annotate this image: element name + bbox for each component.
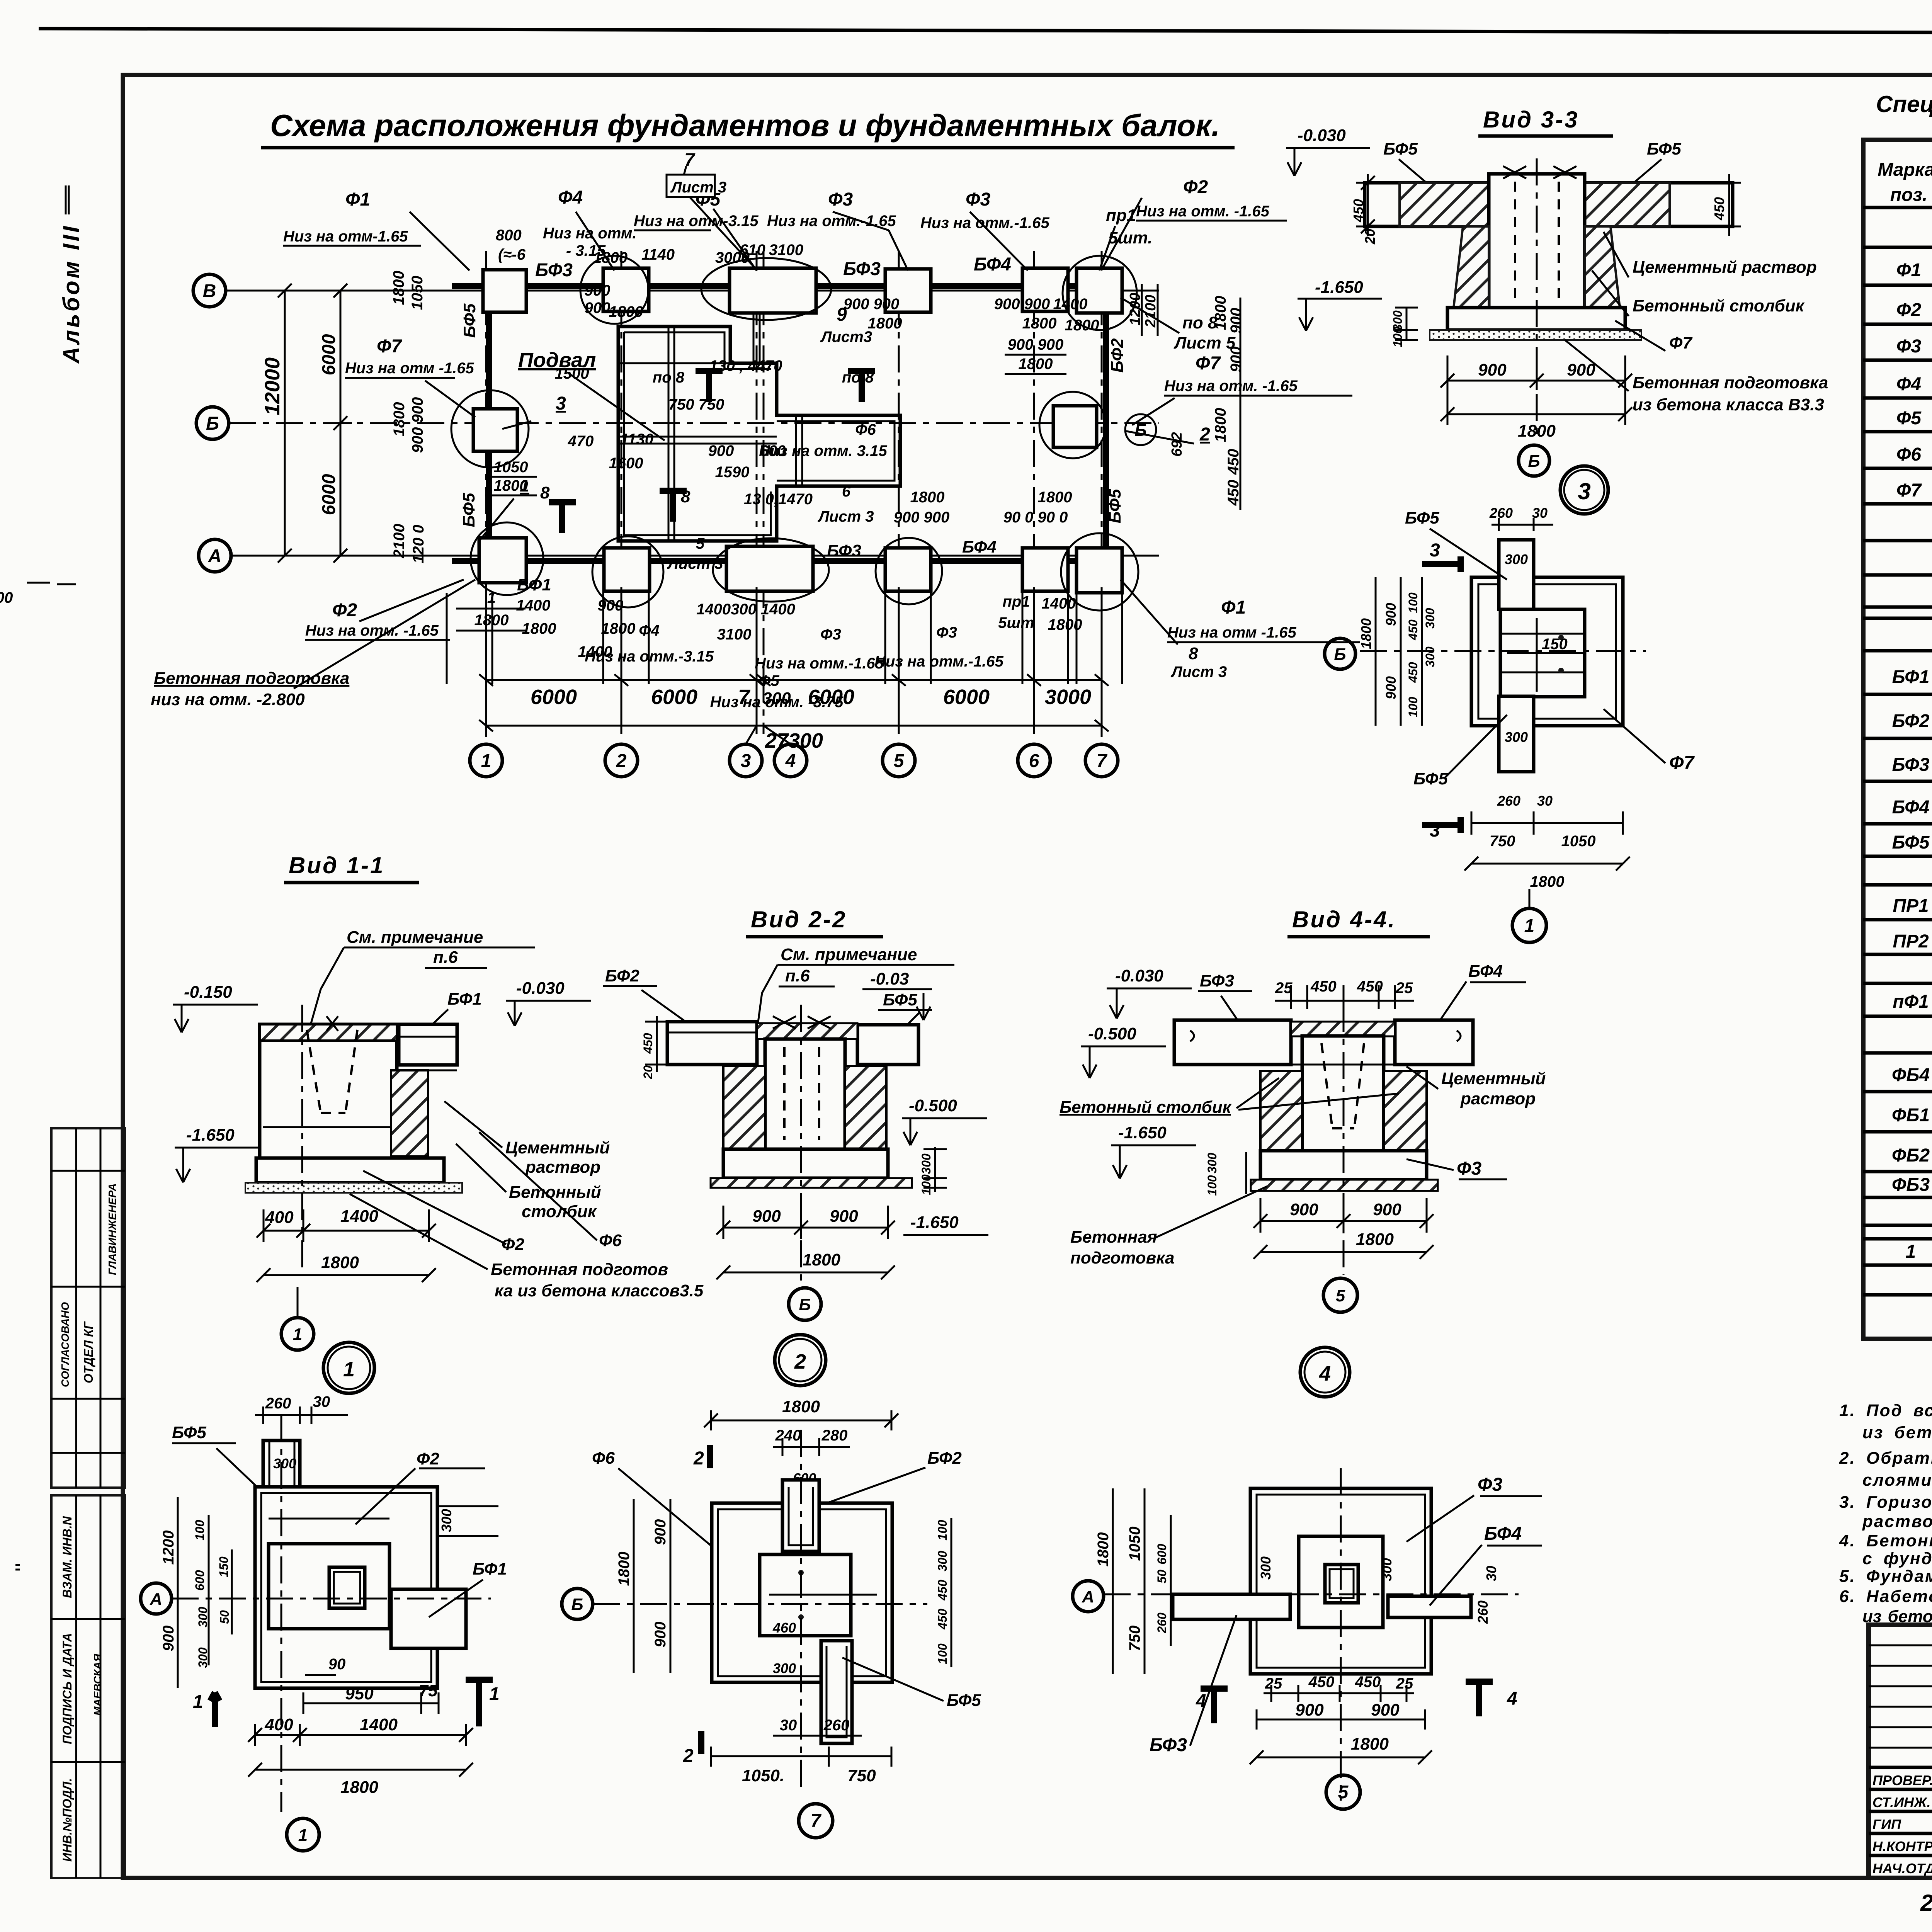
detail F7 top beam stub <box>1499 540 1534 609</box>
svg-text:-1.650: -1.650 <box>1118 1123 1167 1142</box>
detail 5 axis circle A <box>1073 1581 1104 1612</box>
svg-text:БФ5: БФ5 <box>947 1691 981 1710</box>
view 1-1 mortar wedge hatched <box>391 1070 428 1156</box>
detail 7 axis circle B <box>562 1588 593 1619</box>
svg-text:ФБ3: ФБ3 <box>1892 1175 1930 1195</box>
view 3-3 stakan column <box>1489 174 1585 308</box>
svg-text:БФ5: БФ5 <box>1647 139 1681 158</box>
svg-text:БФ1: БФ1 <box>517 575 551 594</box>
svg-text:БФ2: БФ2 <box>605 966 639 985</box>
svg-text:260: 260 <box>1475 1600 1491 1624</box>
svg-text:пр1: пр1 <box>1002 593 1030 610</box>
svg-text:1800: 1800 <box>1356 1230 1394 1249</box>
title block outer <box>1869 1625 1932 1878</box>
svg-text:1. Под всеми монолотными фунда: 1. Под всеми монолотными фундаментами пр… <box>1839 1401 1932 1420</box>
svg-text:9: 9 <box>837 304 847 325</box>
svg-text:Б: Б <box>1334 645 1346 664</box>
detail 1 footing outline <box>255 1487 437 1688</box>
svg-text:900 900: 900 900 <box>1008 336 1064 353</box>
svg-text:25: 25 <box>1395 980 1413 997</box>
axis row B <box>196 407 229 439</box>
svg-text:900: 900 <box>1228 347 1245 372</box>
svg-text:Ф1: Ф1 <box>1221 597 1246 618</box>
svg-text:подготовка: подготовка <box>1070 1248 1175 1267</box>
svg-text:Альбом III: Альбом III <box>58 224 84 364</box>
revision clouds <box>701 258 831 320</box>
svg-text:ФБ1: ФБ1 <box>1892 1105 1930 1126</box>
view 3-3 slab band <box>1365 183 1733 226</box>
svg-text:7: 7 <box>1097 751 1108 771</box>
detail 1 inner step <box>269 1544 389 1629</box>
basement inner partitions <box>618 327 777 541</box>
svg-text:300: 300 <box>196 1607 210 1628</box>
svg-text:БФ3: БФ3 <box>827 541 861 560</box>
svg-text:Вид 2-2: Вид 2-2 <box>751 906 847 932</box>
svg-text:Низ на отм-3.15: Низ на отм-3.15 <box>634 213 759 230</box>
svg-text:25: 25 <box>1275 980 1293 997</box>
svg-text:2: 2 <box>794 1350 806 1373</box>
svg-text:пФ1: пФ1 <box>1893 992 1929 1012</box>
svg-text:Ф6: Ф6 <box>599 1231 622 1250</box>
svg-text:25: 25 <box>1265 1675 1282 1692</box>
view 3-3 dims 300 100 <box>1395 308 1418 340</box>
svg-text:1: 1 <box>1906 1242 1916 1262</box>
svg-text:75: 75 <box>419 1681 438 1700</box>
svg-text:Н.КОНТР: Н.КОНТР <box>1872 1838 1932 1854</box>
svg-text:БФ5: БФ5 <box>1405 509 1439 527</box>
svg-text:5: 5 <box>894 751 905 771</box>
svg-text:1500: 1500 <box>555 365 589 382</box>
detail 5 bottom dims 25 450 450 25 <box>1264 1685 1414 1702</box>
svg-text:БФ4: БФ4 <box>1468 962 1503 981</box>
svg-text:п.6: п.6 <box>785 966 810 985</box>
svg-text:1800: 1800 <box>340 1778 378 1797</box>
view 3-3 prep strip <box>1430 330 1641 340</box>
view 2-2 prep strip <box>711 1178 912 1188</box>
svg-text:1: 1 <box>298 1826 308 1845</box>
svg-text:МАЕВСКАЯ: МАЕВСКАЯ <box>92 1654 104 1716</box>
svg-text:БФ2: БФ2 <box>1108 338 1127 372</box>
detail 5 circle 5 <box>1326 1775 1360 1809</box>
svg-text:260: 260 <box>823 1717 850 1734</box>
svg-text:2: 2 <box>616 751 627 771</box>
svg-text:Ф2: Ф2 <box>417 1449 439 1468</box>
svg-text:Ф7: Ф7 <box>1669 753 1695 773</box>
view 2-2 column <box>765 1039 845 1149</box>
svg-text:100: 100 <box>193 1520 207 1541</box>
column circles 1-7 <box>470 744 502 777</box>
svg-text:1050: 1050 <box>1561 833 1596 850</box>
svg-text:300: 300 <box>1505 551 1528 567</box>
svg-text:3. Горизонтальную гидроизоляци: 3. Горизонтальную гидроизоляцию стен вып… <box>1839 1493 1932 1512</box>
svg-text:900: 900 <box>830 1207 858 1226</box>
view 3-3 concrete posts hatched <box>1454 226 1489 308</box>
rows F1..F7 <box>1896 259 1932 501</box>
svg-text:30: 30 <box>1537 793 1553 809</box>
view 2-2 axis <box>800 1005 802 1283</box>
svg-text:Ф2: Ф2 <box>1183 177 1208 197</box>
svg-text:4. Бетонные столбики под фунда: 4. Бетонные столбики под фундаментные ба… <box>1839 1531 1932 1550</box>
detail 5 left dims <box>1113 1488 1171 1674</box>
svg-text:-0.500: -0.500 <box>909 1096 957 1115</box>
svg-text:750: 750 <box>1490 833 1515 850</box>
left margin stamp boxes group 1 <box>51 1128 125 1488</box>
svg-text:27300: 27300 <box>765 729 823 752</box>
svg-text:800: 800 <box>496 227 522 244</box>
svg-text:БФ1: БФ1 <box>1892 667 1930 687</box>
svg-text:900: 900 <box>708 442 734 459</box>
foundation beam BF5 right vertical <box>1103 298 1109 553</box>
svg-text:5. Фундаментные балки укладыва: 5. Фундаментные балки укладываются на св… <box>1839 1567 1932 1586</box>
svg-text:Лист 3: Лист 3 <box>667 555 723 572</box>
svg-text:100: 100 <box>1406 592 1420 613</box>
detail 1 dims 400 1400 <box>248 1724 473 1746</box>
svg-text:БФ3: БФ3 <box>1892 755 1930 775</box>
svg-text:3: 3 <box>1430 540 1440 561</box>
svg-text:Б: Б <box>1134 421 1146 440</box>
svg-text:с фундаментами.: с фундаментами. <box>1862 1549 1932 1568</box>
svg-text:300: 300 <box>1423 608 1437 629</box>
svg-text:900: 900 <box>1228 308 1245 334</box>
svg-text:Ф7: Ф7 <box>1196 353 1221 374</box>
svg-text:Ф2: Ф2 <box>332 600 357 621</box>
svg-text:450: 450 <box>641 1033 655 1054</box>
view 3-3 left dims 450 20 <box>1356 174 1379 236</box>
svg-text:ПР2: ПР2 <box>1893 931 1929 952</box>
svg-text:2100: 2100 <box>1143 295 1159 328</box>
column axes verticals <box>485 251 487 734</box>
svg-text:1: 1 <box>343 1358 355 1381</box>
svg-text:900: 900 <box>1290 1200 1318 1219</box>
row PF1 <box>1893 990 1932 1012</box>
svg-text:260: 260 <box>1497 793 1520 809</box>
detail 7 right dims <box>951 1518 952 1667</box>
svg-text:низ на отм. -2.800: низ на отм. -2.800 <box>151 690 305 709</box>
svg-text:Вид 1-1: Вид 1-1 <box>289 852 384 878</box>
svg-text:5: 5 <box>1336 1286 1345 1305</box>
svg-text:900 900: 900 900 <box>994 296 1050 313</box>
svg-text:260: 260 <box>1155 1612 1169 1634</box>
svg-text:Ф1: Ф1 <box>1896 260 1921 281</box>
svg-text:-0.030: -0.030 <box>516 979 565 998</box>
svg-text:Б: Б <box>799 1295 811 1314</box>
view 3-3 axis vertical <box>1536 158 1538 437</box>
detail 1 central pocket <box>329 1567 365 1608</box>
left margin stamp boxes group 2 <box>51 1495 125 1878</box>
svg-text:1800: 1800 <box>1530 873 1565 890</box>
rows FB <box>1892 1065 1932 1195</box>
svg-text:1800: 1800 <box>390 271 407 305</box>
signature rows names <box>1872 1772 1932 1876</box>
small scan dashes left margin <box>27 583 76 584</box>
svg-text:6: 6 <box>1029 751 1039 771</box>
svg-text:8: 8 <box>681 487 690 506</box>
svg-text:СТ.ИНЖ.: СТ.ИНЖ. <box>1872 1794 1931 1810</box>
svg-text:4: 4 <box>1196 1691 1206 1711</box>
svg-text:450: 450 <box>1355 1673 1381 1690</box>
svg-text:Схема расположения фундаментов: Схема расположения фундаментов и фундаме… <box>270 108 1220 143</box>
svg-text:750 750: 750 750 <box>668 396 724 413</box>
svg-text:СОГЛАСОВАНО: СОГЛАСОВАНО <box>59 1302 71 1387</box>
svg-text:8: 8 <box>540 483 550 502</box>
svg-text:1800: 1800 <box>1358 618 1374 649</box>
svg-text:БФ4: БФ4 <box>962 537 997 556</box>
svg-text:Ф6: Ф6 <box>1896 444 1921 465</box>
svg-text:ПР1: ПР1 <box>1893 896 1929 916</box>
basement walls outline <box>618 327 900 541</box>
svg-text:1200: 1200 <box>160 1531 177 1565</box>
svg-text:12000: 12000 <box>261 357 284 415</box>
svg-text:6000: 6000 <box>319 334 339 375</box>
svg-text:900: 900 <box>1373 1200 1401 1219</box>
svg-text:1: 1 <box>293 1325 302 1344</box>
detail F7 circle 1 <box>1512 908 1546 942</box>
view 2-2 hatched strip between beams <box>757 1023 857 1039</box>
view 2-2 beams <box>667 1022 757 1065</box>
view 4-4 beams <box>1174 1020 1291 1065</box>
svg-text:п.6: п.6 <box>433 948 458 967</box>
svg-text:Бетонная: Бетонная <box>1070 1228 1157 1247</box>
svg-text:300: 300 <box>1423 646 1437 667</box>
svg-text:460: 460 <box>772 1620 796 1636</box>
svg-text:450: 450 <box>1406 662 1420 683</box>
svg-text:1590: 1590 <box>715 464 750 481</box>
svg-text:300: 300 <box>1505 729 1528 745</box>
svg-text:1400: 1400 <box>516 597 551 614</box>
svg-text:Ф3: Ф3 <box>1896 336 1921 357</box>
svg-text:100: 100 <box>919 1174 933 1195</box>
view 1-1 foundation body <box>260 1024 397 1158</box>
view 4-4 axis <box>1343 1005 1345 1275</box>
svg-text:22640-02: 22640-02 <box>1920 1890 1932 1916</box>
svg-text:1800: 1800 <box>1212 296 1229 330</box>
row MN553 <box>1906 1240 1932 1262</box>
svg-text:450: 450 <box>1406 619 1420 641</box>
detail 5 dims 900 900 <box>1257 1709 1425 1730</box>
svg-text:900 900: 900 900 <box>409 397 426 453</box>
view 3-3 bottom dims 900 900 1800 <box>1447 355 1625 425</box>
svg-text:ПОДПИСЬ И ДАТА: ПОДПИСЬ И ДАТА <box>60 1633 74 1744</box>
svg-text:150: 150 <box>217 1556 231 1577</box>
svg-text:1: 1 <box>489 1684 500 1704</box>
svg-text:ВЗАМ. ИНВ.N: ВЗАМ. ИНВ.N <box>60 1516 74 1598</box>
detail 5 footing outline <box>1250 1488 1431 1674</box>
svg-text:1800: 1800 <box>522 620 556 637</box>
svg-text:900: 900 <box>160 1626 177 1651</box>
detail F7 inner pocket <box>1500 609 1585 697</box>
svg-text:БФ3: БФ3 <box>1150 1735 1187 1755</box>
svg-text:ка из бетона классов3.5: ка из бетона классов3.5 <box>495 1281 704 1300</box>
svg-text:2: 2 <box>693 1448 704 1469</box>
svg-text:6000: 6000 <box>531 685 577 709</box>
svg-text:-0.150: -0.150 <box>184 983 232 1002</box>
svg-text:3: 3 <box>741 751 751 771</box>
svg-text:Низ на отм -1.65: Низ на отм -1.65 <box>1167 624 1296 641</box>
svg-text:А: А <box>208 546 222 566</box>
footings row A <box>479 538 526 583</box>
svg-text:1800: 1800 <box>494 477 528 494</box>
svg-text:Ф4: Ф4 <box>558 187 583 208</box>
svg-text:90 0 90 0: 90 0 90 0 <box>1003 509 1068 526</box>
svg-text:1800: 1800 <box>601 620 636 637</box>
stakan columns verticals under F5 <box>753 314 802 485</box>
svg-text:БФ2: БФ2 <box>1892 711 1930 731</box>
svg-text:900: 900 <box>1567 361 1595 379</box>
svg-text:Ф3: Ф3 <box>1478 1475 1502 1495</box>
view 1-1 bottom dims <box>257 1209 436 1242</box>
foundation beams row V <box>452 283 1121 289</box>
detail F7 center marks <box>1507 618 1584 692</box>
svg-text:300: 300 <box>273 1456 296 1471</box>
svg-text:4: 4 <box>1507 1689 1517 1709</box>
svg-text:ОТДЕЛ КГ: ОТДЕЛ КГ <box>82 1321 95 1383</box>
view 4-4 prep strip <box>1251 1180 1438 1191</box>
svg-text:Вид 4-4.: Вид 4-4. <box>1292 906 1396 932</box>
svg-text:ИНВ.№ПОДЛ.: ИНВ.№ПОДЛ. <box>60 1778 74 1862</box>
view 3-3 detail circle 3 <box>1560 466 1608 514</box>
extension lines from footings <box>446 593 448 684</box>
svg-text:450: 450 <box>1225 480 1242 506</box>
svg-text:Низ на отм. -1.65: Низ на отм. -1.65 <box>1136 203 1270 220</box>
detail 5 dim 1800 <box>1250 1750 1432 1764</box>
svg-text:13 0,1470: 13 0,1470 <box>744 491 813 508</box>
svg-text:1050: 1050 <box>1126 1527 1143 1561</box>
svg-text:900: 900 <box>652 1519 669 1545</box>
left dim chain 12000 <box>273 284 296 563</box>
svg-text:4: 4 <box>1319 1362 1331 1385</box>
svg-text:280: 280 <box>821 1427 848 1444</box>
svg-text:6: 6 <box>842 483 851 500</box>
svg-text:Ф7: Ф7 <box>1669 333 1693 352</box>
svg-text:ФБ4: ФБ4 <box>1892 1065 1930 1085</box>
svg-text:БФ5: БФ5 <box>460 303 479 338</box>
svg-text:Низ на отм. -1.65: Низ на отм. -1.65 <box>305 622 439 639</box>
bottom dimension chain segments <box>486 679 1102 681</box>
svg-text:2: 2 <box>683 1746 694 1766</box>
svg-text:Низ на отм. -3.75: Низ на отм. -3.75 <box>710 694 844 711</box>
svg-text:Бетонная подготов: Бетонная подготов <box>491 1260 668 1279</box>
detail 5 central pocket <box>1325 1565 1358 1603</box>
svg-text:БФ5: БФ5 <box>1383 139 1418 158</box>
svg-text:2. Обратную засыпку производит: 2. Обратную засыпку производить грунтом … <box>1839 1449 1932 1468</box>
circled B right <box>1125 414 1156 445</box>
svg-text:260: 260 <box>1489 505 1513 521</box>
svg-text:Ф2: Ф2 <box>1896 300 1921 320</box>
footings row V <box>483 270 526 312</box>
svg-text:100: 100 <box>1391 327 1405 347</box>
svg-text:8: 8 <box>1189 644 1198 663</box>
svg-text:900: 900 <box>598 597 624 614</box>
svg-text:100: 100 <box>1205 1175 1219 1196</box>
svg-text:750: 750 <box>1126 1626 1143 1651</box>
svg-text:900: 900 <box>585 299 611 316</box>
svg-text:Вид 3-3: Вид 3-3 <box>1483 107 1579 133</box>
svg-text:Ф3: Ф3 <box>1457 1158 1481 1179</box>
svg-text:Бетонный: Бетонный <box>509 1183 601 1202</box>
detail F7 plan outer square <box>1471 577 1623 726</box>
svg-text:1800: 1800 <box>1065 317 1099 334</box>
svg-text:1400: 1400 <box>1042 595 1076 612</box>
svg-text:БФ3: БФ3 <box>1200 971 1234 990</box>
svg-text:-0.03: -0.03 <box>870 969 909 988</box>
detail F7 axis <box>1360 650 1646 652</box>
svg-text:1130: 1130 <box>620 431 653 448</box>
svg-text:БФ5: БФ5 <box>1892 832 1930 853</box>
svg-text:Низ на отм. -1.65: Низ на отм. -1.65 <box>1164 378 1298 395</box>
svg-text:раствор: раствор <box>1460 1089 1536 1108</box>
svg-text:400: 400 <box>264 1715 293 1734</box>
view 4-4 bottom dims <box>1253 1198 1434 1233</box>
detail 7 beam stub bottom <box>821 1641 852 1743</box>
detail 5 left beam BF3 <box>1173 1594 1290 1619</box>
svg-text:3: 3 <box>1578 478 1590 504</box>
view 2-2 right dims 300 100 <box>923 1147 947 1192</box>
svg-text:100: 100 <box>935 1520 949 1541</box>
svg-text:1800: 1800 <box>1022 315 1057 332</box>
svg-text:Ф7: Ф7 <box>1896 480 1922 501</box>
svg-text:ГИП: ГИП <box>1872 1816 1901 1832</box>
foundation beam BF5 left vertical <box>486 298 492 553</box>
svg-text:1400: 1400 <box>340 1207 378 1226</box>
detail F7 bottom dims <box>1471 811 1623 835</box>
svg-text:3100: 3100 <box>717 626 752 643</box>
svg-text:1140: 1140 <box>641 246 675 263</box>
svg-text:450: 450 <box>1711 197 1727 221</box>
view 3-3 axis circle B <box>1519 445 1549 476</box>
svg-text:1400: 1400 <box>360 1715 398 1734</box>
svg-text:из бетона класса В 3.5 толщино: из бетона класса В 3.5 толщиной 100 мм. <box>1862 1423 1932 1442</box>
svg-text:150: 150 <box>1542 636 1568 653</box>
svg-text:из бетона класса В3.3: из бетона класса В3.3 <box>1633 395 1824 414</box>
detail 5 right beam BF4 <box>1388 1596 1471 1617</box>
svg-text:Ф6: Ф6 <box>592 1449 615 1468</box>
svg-text:1800: 1800 <box>391 402 408 437</box>
detail 7 dims 1050 750 <box>711 1747 891 1767</box>
svg-text:Ф3: Ф3 <box>820 626 841 643</box>
svg-text:1400300 1400: 1400300 1400 <box>696 601 795 618</box>
specification table grid <box>1863 140 1932 1339</box>
svg-text:300: 300 <box>1379 1558 1395 1581</box>
svg-text:6000: 6000 <box>319 474 339 515</box>
svg-text:БФ4: БФ4 <box>1892 797 1930 818</box>
svg-text:950: 950 <box>345 1684 374 1703</box>
svg-text:Спецификация к схеме располож: Спецификация к схеме расположения фундам… <box>1876 91 1932 117</box>
section marks T8 <box>549 502 576 533</box>
svg-text:240: 240 <box>775 1427 801 1444</box>
svg-text:300: 300 <box>935 1551 949 1571</box>
svg-text:1400: 1400 <box>1053 296 1088 313</box>
axis row A <box>199 539 231 572</box>
svg-text:900: 900 <box>1383 676 1399 699</box>
svg-text:1800: 1800 <box>321 1253 359 1272</box>
svg-text:БФ5: БФ5 <box>1105 489 1124 523</box>
svg-text:1050.: 1050. <box>742 1766 784 1785</box>
svg-text:100: 100 <box>1406 697 1420 718</box>
svg-text:Низ на отм. 3.15: Низ на отм. 3.15 <box>759 442 887 459</box>
svg-text:5шт: 5шт <box>998 614 1034 631</box>
svg-text:750: 750 <box>847 1766 876 1785</box>
detail 1 dim 1800 <box>248 1763 473 1777</box>
svg-text:слоями не более 200мм. с уплот: слоями не более 200мм. с уплотнение до р… <box>1862 1471 1932 1490</box>
view 2-2 posts hatched <box>723 1066 765 1149</box>
view 4-4 circle 5 <box>1323 1278 1357 1312</box>
svg-text:Ф3: Ф3 <box>966 189 990 210</box>
svg-text:1800: 1800 <box>1038 489 1072 506</box>
rows BF1..BF5 <box>1892 666 1932 853</box>
svg-text:6000: 6000 <box>943 685 990 709</box>
view 3-3 base slab F7 <box>1447 308 1625 330</box>
svg-text:1800: 1800 <box>803 1250 840 1269</box>
